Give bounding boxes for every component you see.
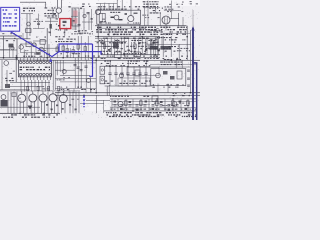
transistor TR in block <box>128 16 134 22</box>
resistor R21 <box>26 29 31 33</box>
wire <box>46 28 49 58</box>
label row <box>160 27 187 35</box>
IF amp block <box>97 10 141 24</box>
transistor TR34 <box>49 94 57 102</box>
wire bus <box>55 94 200 97</box>
label <box>55 36 75 42</box>
wire <box>105 85 152 88</box>
label <box>71 31 93 34</box>
wire <box>56 0 59 8</box>
wire <box>16 39 19 61</box>
label <box>78 30 88 33</box>
wire <box>60 81 96 83</box>
transistor TR32 <box>29 94 37 102</box>
wire <box>161 36 164 46</box>
wire <box>52 60 55 90</box>
wire <box>0 90 80 92</box>
wire <box>116 0 119 10</box>
label top right <box>169 2 184 5</box>
wire <box>0 35 22 38</box>
wire <box>59 60 62 72</box>
wire <box>37 14 40 29</box>
module outline 2 <box>118 78 150 86</box>
transistor TR31 legs <box>20 91 23 113</box>
label row above IF box <box>98 6 140 10</box>
wire <box>52 8 55 18</box>
wire <box>87 36 90 60</box>
wire <box>96 2 117 5</box>
wire <box>69 48 72 58</box>
wire <box>60 0 63 8</box>
wire <box>151 40 154 46</box>
label bottom row 1 <box>106 112 196 116</box>
stubs bottom center <box>59 89 91 93</box>
wire <box>43 44 46 58</box>
wire <box>30 47 33 58</box>
label in block <box>110 12 120 13</box>
resistor R <box>152 96 158 102</box>
label <box>25 50 46 51</box>
wire <box>150 29 162 32</box>
wire <box>72 46 75 58</box>
wire <box>105 65 150 68</box>
label <box>164 6 183 12</box>
wire <box>80 36 83 60</box>
transistor TR33 legs <box>41 91 44 113</box>
wire bus <box>35 59 200 62</box>
wire <box>80 102 104 105</box>
transformer core <box>164 17 167 23</box>
label <box>9 71 15 74</box>
wire <box>44 2 47 7</box>
wire <box>150 66 190 69</box>
wire <box>164 9 181 11</box>
wire <box>0 106 40 109</box>
wire <box>0 89 30 92</box>
capacitor bank bottom <box>114 105 179 106</box>
wire <box>145 60 148 66</box>
wire <box>108 85 111 96</box>
IF transformer T3 <box>100 66 105 74</box>
wires below IC <box>21 80 49 92</box>
wire <box>55 87 96 90</box>
wire <box>26 14 29 39</box>
resistor in block <box>111 17 115 19</box>
label <box>100 19 106 23</box>
resistors on verticals mid <box>56 45 86 52</box>
wire <box>86 99 110 102</box>
coil L24 lower mark <box>63 25 65 27</box>
label bottom row 2 <box>109 116 196 117</box>
label mid bottom <box>61 87 95 90</box>
wire bus <box>0 56 160 59</box>
relay K1 <box>150 46 159 50</box>
resistor R <box>177 71 182 79</box>
component blobs bottom right <box>114 101 188 111</box>
label bias <box>44 13 57 17</box>
vertical wires bottom right <box>112 99 188 111</box>
resistor R28 <box>36 52 41 55</box>
wire <box>62 44 65 58</box>
resistor R <box>115 52 122 58</box>
transformer core <box>166 17 169 23</box>
resistor R31 <box>12 93 16 97</box>
wire <box>139 24 142 36</box>
note text (blue) <box>3 9 18 26</box>
resistor R46 <box>135 70 140 76</box>
test point line (blue dashed) <box>83 96 85 108</box>
wire bus <box>95 24 187 27</box>
capacitors mid-low <box>74 65 88 71</box>
wire <box>143 7 160 10</box>
wire <box>45 20 58 23</box>
label row <box>97 38 158 44</box>
label <box>5 78 14 81</box>
slug <box>101 79 103 81</box>
components in tuner block (pink) <box>73 11 77 24</box>
wire <box>189 60 192 92</box>
wire ground bus <box>0 112 60 115</box>
transformer T2 <box>162 16 170 24</box>
wire <box>83 8 86 30</box>
wire <box>89 76 92 93</box>
IF transformer T4 <box>100 76 105 84</box>
label AGC <box>143 1 159 7</box>
wire <box>170 36 173 57</box>
transistor TR30 <box>1 95 6 100</box>
resistor R23 <box>49 24 52 29</box>
capacitor C <box>4 61 9 66</box>
label right of relays <box>177 46 190 52</box>
wire <box>95 58 98 93</box>
wire <box>127 60 130 66</box>
wire <box>33 40 47 43</box>
capacitor C <box>62 70 66 74</box>
label row <box>101 61 151 67</box>
wire <box>74 8 77 30</box>
capacitor C21 <box>27 22 31 26</box>
wire <box>130 0 133 16</box>
sub block <box>151 69 186 86</box>
wire <box>55 69 75 72</box>
resistor in block <box>134 13 138 15</box>
label <box>154 103 190 107</box>
wire <box>177 13 180 26</box>
wire <box>110 107 196 110</box>
wire <box>78 12 81 30</box>
wire <box>77 36 80 60</box>
capacitor C22 <box>37 23 40 24</box>
transistor TR41 <box>118 101 123 106</box>
label top right corner <box>190 1 199 4</box>
wire <box>186 26 189 61</box>
note leader line (blue) <box>11 32 60 57</box>
resistors center band <box>103 39 152 55</box>
resistor R <box>66 49 74 54</box>
label cluster <box>82 4 91 8</box>
transistor TR42 <box>172 102 177 107</box>
highlight box (red) <box>60 19 71 29</box>
label <box>6 38 16 41</box>
capacitor C <box>32 43 36 47</box>
wire bus <box>55 91 200 94</box>
pin <box>101 13 104 22</box>
label bottom right band <box>110 109 196 110</box>
label <box>142 15 159 19</box>
wire <box>85 60 88 88</box>
wire <box>95 37 160 40</box>
wire <box>6 70 9 84</box>
vertical wires bottom left <box>8 92 79 114</box>
wire <box>80 62 83 88</box>
wire bus <box>101 53 160 56</box>
wire <box>23 50 26 58</box>
wire <box>55 77 96 80</box>
extra verticals center band <box>102 39 158 55</box>
label TR26 2SC <box>160 59 182 65</box>
wire <box>110 37 113 55</box>
wire <box>48 44 51 58</box>
wire <box>88 12 91 30</box>
wire <box>109 60 112 66</box>
wire <box>154 37 157 55</box>
resistor R <box>134 52 141 56</box>
wire <box>182 17 185 26</box>
label <box>57 77 70 80</box>
wire <box>95 95 98 113</box>
wire <box>2 36 5 58</box>
transistor TR33 <box>39 94 47 102</box>
wire <box>63 29 66 36</box>
resistor in block <box>119 19 123 20</box>
transistor TR24 <box>56 8 61 13</box>
wire <box>159 14 162 26</box>
wire <box>22 33 25 39</box>
transistor TR31 <box>18 94 26 102</box>
label <box>150 56 188 59</box>
IF transformer T1 <box>99 13 105 22</box>
label <box>152 84 183 87</box>
wire bus <box>110 98 196 101</box>
capacitor C <box>19 45 23 49</box>
wire <box>157 84 160 93</box>
label <box>72 99 79 100</box>
wire <box>157 36 160 55</box>
wire <box>55 62 96 65</box>
capacitor C24 <box>78 25 81 26</box>
component <box>113 42 118 49</box>
wire <box>170 17 179 20</box>
wire <box>97 24 100 36</box>
wire <box>108 28 111 36</box>
wire <box>165 24 168 31</box>
resistors above transistor row <box>27 86 60 90</box>
label <box>110 96 149 97</box>
wire <box>1 60 4 90</box>
scan noise <box>0 0 201 120</box>
blue tick at IC pin 10 <box>50 59 52 62</box>
transistor TR22 <box>95 9 100 14</box>
resistor R <box>26 42 31 47</box>
wire <box>141 37 144 55</box>
capacitor C27 <box>39 47 43 51</box>
wire <box>181 60 184 68</box>
capacitor C45 <box>119 73 123 77</box>
wire <box>12 48 15 58</box>
resistor R <box>163 71 168 75</box>
diode block <box>1 100 8 107</box>
label row <box>104 81 150 84</box>
label <box>60 53 80 56</box>
wire <box>56 44 59 58</box>
label <box>118 58 138 59</box>
resistor R <box>9 44 14 48</box>
wire <box>29 14 32 37</box>
wire <box>77 58 80 88</box>
wire <box>8 48 11 58</box>
wire <box>154 7 157 14</box>
wire <box>62 60 65 75</box>
wire <box>56 60 59 75</box>
wire <box>97 27 146 30</box>
wire <box>192 10 195 27</box>
resistor R <box>170 76 175 80</box>
wire <box>33 27 45 30</box>
module outline <box>127 67 159 75</box>
label center mid <box>105 46 159 49</box>
label <box>173 93 191 96</box>
wire <box>163 32 190 35</box>
tuner sub-block <box>72 8 79 26</box>
wire <box>150 63 196 65</box>
label TR24 2SC1675L <box>23 8 35 12</box>
marks upper mid <box>49 6 93 33</box>
label 0.05mA <box>45 7 56 11</box>
wire <box>121 0 124 10</box>
label center overlay <box>99 32 158 35</box>
wire <box>47 17 57 20</box>
wire <box>143 7 146 26</box>
wire <box>123 37 126 55</box>
label right <box>154 46 176 52</box>
wire <box>0 58 18 61</box>
capacitor C25 <box>87 13 90 14</box>
capacitor in block <box>125 13 128 15</box>
component marks center band <box>102 42 160 51</box>
resistor row bottom right <box>125 101 190 106</box>
wire <box>189 30 192 60</box>
wire <box>97 37 100 58</box>
wire <box>130 42 133 55</box>
wire <box>74 58 77 88</box>
wire <box>147 1 150 26</box>
label right <box>151 37 186 43</box>
wire <box>0 48 10 51</box>
wire <box>0 37 31 40</box>
label <box>85 56 95 59</box>
transistor TR35 <box>59 95 67 103</box>
capacitors right <box>187 70 190 86</box>
transistor TR23 <box>114 15 119 20</box>
wire <box>57 13 60 18</box>
label row dense <box>96 27 158 36</box>
IC201 pins bottom <box>19 73 51 76</box>
wire <box>8 85 42 88</box>
capacitor C33 <box>87 79 91 83</box>
marks lower left-center <box>46 104 77 110</box>
label top-left mid <box>2 31 15 34</box>
IC201 part number text <box>20 67 51 71</box>
label <box>99 22 139 23</box>
IC201 pin stubs <box>21 58 51 80</box>
wire <box>102 100 105 113</box>
B+ rail (navy) <box>192 28 194 120</box>
resistor R <box>40 40 45 45</box>
wire <box>112 104 150 106</box>
diode D31 <box>28 106 33 110</box>
wire <box>104 110 196 113</box>
wire <box>21 12 33 15</box>
wire <box>170 1 173 19</box>
shield box <box>21 44 37 53</box>
B+ rail arrowhead <box>191 26 194 30</box>
label <box>34 19 44 22</box>
IC201 <box>18 60 51 77</box>
diode D <box>5 84 10 88</box>
label <box>42 86 49 89</box>
slug <box>101 69 103 71</box>
wire <box>110 100 196 102</box>
wire <box>175 60 178 68</box>
label below bus <box>98 56 157 59</box>
note box (blue annotation) <box>1 7 20 31</box>
wire <box>152 40 155 55</box>
transistor TR34 legs <box>51 91 54 113</box>
label above IC <box>23 53 50 56</box>
wire <box>95 40 127 43</box>
signal trace (blue) <box>59 44 101 76</box>
wire <box>0 49 17 52</box>
wire <box>66 45 69 58</box>
wire <box>60 74 90 77</box>
junction dots <box>3 25 192 114</box>
label <box>55 18 58 30</box>
transistor TR25 <box>156 73 161 78</box>
wire <box>15 55 18 82</box>
wire <box>84 42 87 60</box>
wire <box>150 43 191 46</box>
wire <box>162 36 165 57</box>
wire <box>10 81 50 84</box>
wire <box>167 84 170 93</box>
wire <box>95 45 115 48</box>
label <box>36 37 46 38</box>
wire <box>49 18 52 36</box>
label IF out <box>149 8 163 14</box>
transistor TR32 legs <box>31 91 34 113</box>
transistor TR35 legs <box>62 91 65 113</box>
wires right of red box <box>71 9 93 30</box>
wire <box>106 86 109 96</box>
capacitor bank <box>108 66 147 86</box>
IC201 pins top <box>19 61 51 64</box>
wire top <box>20 1 46 4</box>
capacitor C41 <box>156 29 160 33</box>
capacitor C12 <box>11 47 14 50</box>
wire <box>38 47 58 50</box>
label bottom-left row <box>3 114 58 117</box>
label <box>100 51 146 54</box>
